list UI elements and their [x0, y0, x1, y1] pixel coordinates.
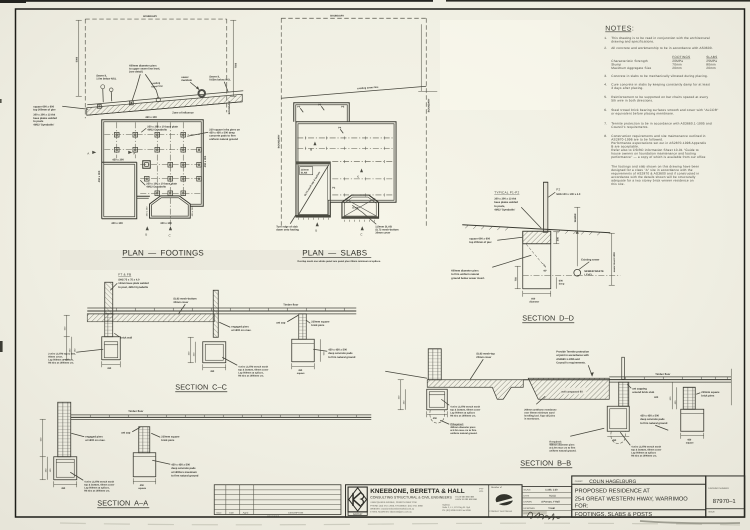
svg-text:450: 450: [433, 417, 438, 420]
svg-text:in membrane.: in membrane.: [524, 417, 540, 420]
title SECTION D-D: [522, 313, 574, 323]
svg-text:R6 ties at 1050mm crs.: R6 ties at 1050mm crs.: [450, 414, 476, 417]
boundary left (slabs plan): [277, 18, 281, 228]
note 250x100 base plate lower: [140, 180, 177, 188]
section marker B in slab: [310, 141, 316, 151]
svg-text:to post, 4M12 Dynabolts: to post, 4M12 Dynabolts: [118, 286, 148, 289]
svg-text:deep concrete pads: deep concrete pads: [328, 352, 353, 355]
dim sewer invert right: [609, 233, 616, 285]
svg-text:450: 450: [612, 439, 617, 442]
svg-text:brick piers: brick piers: [161, 439, 175, 442]
svg-text:brick piers: brick piers: [701, 395, 715, 398]
stub footing B-B: [607, 406, 629, 431]
svg-text:top 200mm of pier: top 200mm of pier: [469, 241, 491, 244]
svg-text:uniform natural ground: uniform natural ground: [209, 138, 238, 141]
svg-text:PLAN — FOOTINGS: PLAN — FOOTINGS: [122, 248, 204, 257]
slab outline top extension: [294, 103, 350, 122]
svg-text:square: square: [138, 487, 147, 490]
svg-text:9.2.11: 9.2.11: [549, 495, 556, 498]
svg-text:Maximum Aggregate Size: Maximum Aggregate Size: [611, 66, 651, 70]
svg-text:A.C.N 003 550 469: A.C.N 003 550 469: [455, 495, 474, 498]
svg-text:5000: 5000: [75, 56, 78, 62]
mid footing C-C: [203, 342, 226, 363]
230mm brick piers label B-B: [696, 391, 720, 398]
svg-text:300 x 300 x 12 thk: 300 x 300 x 12 thk: [494, 197, 516, 200]
note 4 wire A-A: [70, 472, 114, 492]
svg-text:R6 ties at 1050mm crs.: R6 ties at 1050mm crs.: [84, 489, 110, 492]
label FT & FB: [110, 272, 149, 290]
svg-text:PHONE: (02) 4721 2556, FACSIMI: PHONE: (02) 4721 2556, FACSIMILE: (02) 4…: [370, 504, 423, 507]
dim 450 left footing B-B: [427, 411, 448, 420]
svg-text:20mm: 20mm: [706, 66, 716, 70]
svg-text:at 1800 crs max.: at 1800 crs max.: [85, 439, 105, 442]
svg-text:DESCRIPTION: DESCRIPTION: [288, 511, 303, 514]
svg-text:brick piers: brick piers: [311, 324, 325, 327]
pad grid centrelines vertical: [117, 122, 184, 230]
pier pads row5: [155, 191, 186, 196]
svg-text:uniform natural ground.: uniform natural ground.: [549, 449, 576, 452]
title SECTION B-B: [520, 458, 572, 468]
ant cap label C-C: [276, 315, 298, 324]
note 450x450 pads C-C: [313, 348, 356, 359]
svg-text:FOR:: FOR:: [575, 504, 589, 510]
svg-text:Ph: (02) 9299 1100 Fax 9299: Ph: (02) 9299 1100 Fax 9299: [442, 509, 471, 512]
sewer waste circle: [523, 269, 621, 276]
boundary line left (footings plan): [84, 19, 86, 118]
drawing number box: [706, 487, 745, 514]
title SECTION C-C: [175, 382, 227, 392]
svg-text:4.: 4.: [604, 82, 607, 86]
existing sewer line label: [151, 82, 163, 89]
svg-text:4 MACQUARIE AVENUE, PENRITH NS: 4 MACQUARIE AVENUE, PENRITH NSW 2750: [370, 501, 417, 504]
dim 600 deep: [556, 277, 565, 289]
far right pad B-B: [681, 409, 704, 431]
svg-text:4M12 Dynabolts: 4M12 Dynabolts: [146, 185, 166, 188]
svg-text:BOUNDARY: BOUNDARY: [427, 98, 430, 112]
svg-text:600: 600: [654, 396, 659, 399]
svg-text:4M12 'Dynabolts': 4M12 'Dynabolts': [33, 123, 54, 126]
P4 label mid: [338, 126, 343, 133]
ant capping label B-B: [627, 384, 659, 399]
revision table box: [214, 485, 341, 515]
if required right B-B: [549, 428, 604, 452]
post P2: [543, 182, 547, 232]
left footing A-A: [54, 457, 77, 480]
svg-text:450 x 300: 450 x 300: [191, 206, 194, 216]
svg-text:SL82 mesh-bottom: SL82 mesh-bottom: [173, 297, 197, 300]
sewer manhole dark circle: [198, 90, 205, 97]
label sewer IL left: [96, 74, 117, 80]
svg-text:SEWER WASTE: SEWER WASTE: [584, 270, 604, 273]
svg-text:DRAWING NUMBER: DRAWING NUMBER: [708, 487, 729, 490]
label square 600x600 piers left margin: [33, 105, 88, 126]
svg-text:450: 450: [61, 487, 66, 490]
step in slab room (thick edge): [296, 162, 330, 220]
label 110mm slab bay: [352, 205, 399, 234]
svg-text:8.: 8.: [604, 134, 607, 138]
section marker C in slab: [357, 168, 363, 178]
svg-text:CLIENT:: CLIENT:: [575, 480, 584, 483]
left footing C-C: [102, 337, 121, 360]
section marker A left: [87, 151, 96, 156]
svg-text:Sydney:: Sydney:: [442, 503, 450, 506]
svg-text:B: B: [315, 228, 317, 232]
svg-text:SECTION C–C: SECTION C–C: [175, 382, 227, 391]
svg-text:brick wall: brick wall: [120, 336, 132, 339]
left slab B-B: [427, 380, 523, 400]
pier bulb dashed right B-B: [611, 431, 626, 444]
dimension 7500 right: [230, 20, 237, 96]
svg-text:CONSULTING STRUCTURAL & CIVIL: CONSULTING STRUCTURAL & CIVIL ENGINEERS: [370, 496, 452, 500]
bay side dims rotated: [145, 206, 194, 216]
svg-text:REVISIONS: REVISIONS: [267, 515, 279, 518]
svg-text:Provide Termite protection: Provide Termite protection: [556, 350, 589, 353]
note 4 wire L12TM mid: [222, 357, 268, 377]
sewer zone hatched band: [87, 94, 243, 115]
svg-text:Zone of influence: Zone of influence: [172, 111, 194, 114]
scan left edge marks: [0, 99, 2, 103]
title PLAN - SLABS: [297, 248, 381, 263]
dim 450 mid footing: [203, 364, 226, 373]
svg-text:ant cap: ant cap: [121, 431, 130, 434]
ground slope left B-B: [385, 371, 427, 378]
svg-text:5.: 5.: [604, 95, 607, 99]
section marker C bottom (slabs): [360, 226, 364, 236]
KBH logo: [348, 487, 367, 516]
title PLAN - FOOTINGS: [122, 248, 204, 257]
engaged piers label A-A: [71, 433, 105, 442]
svg-text:to firm uniform natural: to firm uniform natural: [451, 273, 479, 276]
dim 350 left footing: [102, 361, 121, 370]
mid brick pier A-A: [139, 427, 150, 453]
far right brick pier B-B: [683, 387, 695, 409]
mid pad A-A: [133, 453, 156, 477]
svg-text:FT & FB: FT & FB: [118, 272, 131, 276]
note 4wire right B-B: [620, 432, 661, 457]
svg-text:450 x 450 x 500: 450 x 450 x 500: [171, 463, 190, 466]
svg-text:Timber floor: Timber floor: [128, 410, 143, 413]
svg-text:SL82 mesh-top: SL82 mesh-top: [476, 352, 495, 355]
dim line right of slabs: [418, 24, 437, 91]
svg-text:20mm cover: 20mm cover: [476, 356, 491, 359]
svg-text:(see detail): (see detail): [129, 71, 143, 74]
svg-text:B: B: [145, 232, 147, 236]
svg-text:750: 750: [514, 277, 517, 282]
svg-text:square 600 x 600: square 600 x 600: [469, 237, 490, 240]
note 4wire left B-B: [441, 399, 480, 417]
label P2 SHS: [548, 187, 581, 197]
svg-text:E-MAIL ADDRESS: kbateam@pnc.co: E-MAIL ADDRESS: kbateam@pnc.com.au: [370, 511, 412, 514]
note if required left B-B: [440, 420, 477, 435]
svg-text:45°: 45°: [543, 269, 547, 272]
pier D-D: [523, 231, 551, 289]
svg-text:square: square: [686, 441, 695, 444]
svg-text:Council's requirements.: Council's requirements.: [611, 125, 648, 129]
svg-text:this site.: this site.: [611, 182, 625, 186]
svg-text:engaged piers: engaged piers: [231, 325, 249, 328]
boundary line right (footings plan): [227, 19, 231, 114]
svg-text:4M12 Dynabolts: 4M12 Dynabolts: [147, 128, 167, 131]
slab hatch C-C: [87, 314, 214, 322]
section marker C bottom: [168, 226, 172, 237]
open circle on sewer line: [156, 98, 160, 102]
dims left C-C: [63, 315, 76, 360]
svg-text:450 x 300: 450 x 300: [98, 170, 101, 182]
svg-text:A: A: [133, 151, 135, 155]
svg-text:uniform natural ground.: uniform natural ground.: [450, 432, 477, 435]
scale/date/drawn rows: [522, 488, 572, 520]
ACEA member logo: [488, 485, 490, 518]
svg-text:1:100, 1:20: 1:100, 1:20: [545, 489, 558, 492]
section marker A mid: [128, 151, 135, 156]
note 250x300 base plate upper: [141, 125, 178, 132]
svg-text:FOOTINGS, SLABS & POSTS: FOOTINGS, SLABS & POSTS: [575, 512, 653, 518]
svg-text:Existing sewer: Existing sewer: [581, 258, 599, 261]
svg-text:450 x 450 x 500: 450 x 450 x 500: [328, 348, 347, 351]
svg-text:base plates welded: base plates welded: [494, 201, 518, 204]
svg-text:ground below sewer invert.: ground below sewer invert.: [451, 277, 485, 280]
pier pads on sewer line: [97, 101, 133, 108]
svg-text:GROUP: GROUP: [353, 513, 363, 516]
svg-text:450 x 450 x 500: 450 x 450 x 500: [640, 414, 659, 417]
left brick wall A-A: [58, 402, 71, 457]
svg-text:6.: 6.: [604, 108, 607, 112]
svg-text:230mm square: 230mm square: [311, 320, 330, 323]
label sewer IL right: [209, 75, 231, 92]
riser circle symbols: [101, 85, 113, 103]
label sewer manhole: [181, 76, 199, 90]
note 230 square infra piers: [187, 128, 240, 141]
svg-text:square: square: [297, 372, 306, 375]
svg-text:top 200mm of pier: top 200mm of pier: [33, 108, 55, 111]
svg-text:SECTION A–A: SECTION A–A: [97, 498, 148, 507]
mesh label C-C: [173, 297, 197, 314]
svg-text:2.: 2.: [604, 46, 607, 50]
svg-text:PROPOSED RESIDENCE AT: PROPOSED RESIDENCE AT: [575, 488, 651, 494]
svg-text:Overlap mesh one whole panel o: Overlap mesh one whole panel one panel p…: [297, 260, 381, 263]
svg-text:BOUNDARY: BOUNDARY: [143, 15, 157, 18]
svg-text:at joint in accordance with: at joint in accordance with: [556, 354, 589, 357]
svg-text:SECTION D–D: SECTION D–D: [522, 313, 574, 322]
svg-text:4M12 'Dynabolts': 4M12 'Dynabolts': [494, 209, 515, 212]
svg-text:App'd: App'd: [243, 511, 249, 514]
svg-text:around brick stub: around brick stub: [632, 391, 654, 394]
svg-text:Date: Date: [229, 511, 234, 514]
right pad C-C: [292, 339, 315, 362]
svg-text:SLAB: SLAB: [301, 172, 308, 175]
230mm square brick piers label C-C: [306, 320, 330, 327]
svg-text:AS3660.1-1995 and: AS3660.1-1995 and: [556, 358, 580, 361]
slab bay window: [342, 195, 379, 222]
svg-text:SECTION B–B: SECTION B–B: [520, 458, 571, 467]
svg-text:ant capping: ant capping: [632, 387, 647, 390]
dimension 5000 left: [75, 20, 82, 96]
dim 450 square mid pad A-A: [133, 478, 156, 490]
svg-text:200: 200: [556, 237, 559, 242]
footings building outline outer: [102, 120, 204, 219]
post C-C: [105, 282, 113, 314]
boundary top (slabs plan): [281, 14, 426, 18]
right floor line B-B: [609, 369, 731, 406]
svg-text:Y Hall: Y Hall: [548, 507, 555, 510]
membrane note B-B: [524, 396, 557, 420]
svg-text:87970–1: 87970–1: [713, 498, 736, 505]
svg-text:450: 450: [210, 370, 215, 373]
right brick pier C-C: [299, 314, 307, 340]
svg-text:deep: deep: [559, 283, 565, 286]
P3 label lower: [332, 186, 336, 189]
svg-text:7.: 7.: [604, 121, 607, 125]
svg-text:0.65m below NGL: 0.65m below NGL: [209, 78, 231, 81]
dim 450 stub footing: [607, 436, 629, 442]
svg-text:well compacted fill: well compacted fill: [561, 390, 583, 393]
svg-text:KNEEBONE, BERETTA & HALL: KNEEBONE, BERETTA & HALL: [370, 488, 465, 495]
note 450x450 pads B-B: [640, 414, 668, 430]
svg-text:450 x 300: 450 x 300: [145, 116, 157, 119]
company name: [370, 487, 484, 513]
pier bulb dashed left B-B: [430, 410, 445, 424]
svg-text:Timber floor: Timber floor: [283, 303, 298, 306]
svg-text:to firm natural ground: to firm natural ground: [171, 475, 199, 478]
svg-text:400 x 300: 400 x 300: [111, 222, 123, 225]
svg-text:to firm natural ground: to firm natural ground: [328, 356, 356, 359]
left brick column B-B: [428, 349, 441, 380]
svg-text:B: B: [310, 148, 312, 151]
svg-text:BOUNDARY: BOUNDARY: [277, 134, 280, 148]
svg-text:at 1800crs maximum: at 1800crs maximum: [171, 471, 197, 474]
svg-text:20mm: 20mm: [672, 66, 682, 70]
label turn edge of slab: [276, 214, 299, 231]
svg-text:PTY: PTY: [479, 487, 484, 490]
title SECTION A-A: [97, 498, 149, 508]
svg-text:12mm base plate welded: 12mm base plate welded: [118, 282, 149, 285]
svg-text:300 x 300: 300 x 300: [160, 222, 172, 225]
svg-text:ant cap: ant cap: [276, 321, 285, 324]
dim 450 square right pad: [292, 363, 315, 375]
client row: [572, 479, 706, 485]
post B-B: [622, 357, 625, 379]
svg-text:to posts,: to posts,: [494, 205, 505, 208]
svg-text:450 x 300: 450 x 300: [145, 206, 148, 216]
svg-text:to firm natural ground: to firm natural ground: [640, 422, 668, 425]
svg-text:230mm square: 230mm square: [701, 391, 720, 394]
svg-text:1.: 1.: [604, 36, 607, 40]
svg-text:manhole: manhole: [181, 79, 192, 82]
svg-text:SHS 75 x 75 x 4.0: SHS 75 x 75 x 4.0: [118, 278, 140, 281]
svg-text:DATE: DATE: [524, 494, 530, 497]
svg-text:Concrete in slabs to be mechan: Concrete in slabs to be mechanically vib…: [611, 74, 708, 78]
svg-text:254 GREAT WESTERN HWAY, WARRIM: 254 GREAT WESTERN HWAY, WARRIMOO: [575, 496, 688, 502]
dim 450 left footing A-A: [54, 481, 77, 490]
ant cap label A-A: [121, 427, 140, 434]
svg-text:Member of: Member of: [491, 486, 502, 489]
svg-text:Issue: Issue: [216, 511, 222, 514]
svg-text:5th wire in both directions.: 5th wire in both directions.: [611, 98, 653, 102]
svg-text:SEWER: SEWER: [574, 213, 577, 222]
svg-text:All concrete and workmanship t: All concrete and workmanship to be in ac…: [611, 46, 713, 50]
brick wall below post: [105, 314, 133, 340]
pier pads row1: [114, 132, 185, 137]
svg-text:C: C: [357, 175, 359, 178]
P5 labels top extension: [297, 103, 345, 112]
left footing B-B: [427, 389, 448, 410]
floor line C-C: [87, 308, 356, 314]
existing sewer line through manholes: [87, 91, 243, 105]
svg-text:30mm cover: 30mm cover: [375, 232, 390, 235]
svg-text:COLIN HAGELBURG: COLIN HAGELBURG: [589, 479, 636, 485]
mesh tick marks: [305, 136, 384, 196]
svg-text:R6 ties at 1050mm crs.: R6 ties at 1050mm crs.: [48, 361, 74, 364]
dim 200 pier top: [553, 232, 559, 244]
svg-text:or equivalent before placing m: or equivalent before placing membrane.: [611, 111, 674, 115]
svg-text:230mm square: 230mm square: [161, 435, 180, 438]
svg-text:at 1800 crs max.: at 1800 crs max.: [231, 329, 251, 332]
scan bottom smudge: [60, 523, 740, 525]
dim 750 left of pier: [514, 266, 521, 289]
footings bay window octagon: [150, 196, 191, 218]
svg-text:WEBSITE: www.kneeboneberettaha: WEBSITE: www.kneeboneberettahall.com.au: [370, 507, 415, 510]
note 450 pads A-A: [152, 460, 199, 477]
svg-text:R6 ties at 1050mm crs.: R6 ties at 1050mm crs.: [238, 374, 264, 377]
svg-text:BOUNDARY: BOUNDARY: [330, 14, 344, 17]
svg-text:deep concrete pads: deep concrete pads: [171, 467, 196, 470]
label square 600x600 (D-D): [469, 237, 522, 244]
label existing sewer (D-D): [579, 258, 599, 269]
slab outline main: [296, 122, 396, 217]
label 600mm diameter piers: [129, 64, 160, 100]
existing sewer line (slabs): [281, 86, 426, 99]
room diagonal with mesh label: [299, 165, 329, 215]
svg-text:LEVEL: LEVEL: [584, 274, 593, 277]
pier pads row2: [114, 147, 201, 152]
110mm slab tag box: [300, 167, 313, 175]
section marker B bottom-left: [145, 226, 149, 236]
termite protection label B-B: [556, 350, 594, 376]
boundary right (slabs plan): [426, 18, 430, 228]
svg-text:diameter: diameter: [529, 301, 539, 304]
note 2 wire L12TM: [48, 349, 103, 364]
svg-text:350: 350: [107, 367, 112, 370]
dims mid C-C: [187, 337, 195, 363]
svg-text:NOTES:: NOTES:: [605, 25, 634, 32]
svg-text:3.: 3.: [604, 74, 607, 78]
svg-text:3 days after placing.: 3 days after placing.: [611, 86, 643, 90]
svg-text:7500: 7500: [234, 62, 237, 68]
svg-text:drawing and specifications.: drawing and specifications.: [611, 39, 654, 43]
dims right B-B: [669, 382, 677, 409]
footings building outline inner: [104, 122, 202, 217]
svg-text:LTD: LTD: [479, 490, 483, 493]
project rows: [572, 488, 706, 518]
title block outer boxes: [346, 476, 745, 517]
svg-text:engaged piers: engaged piers: [85, 435, 103, 438]
label 600mm dia piers (D-D): [451, 255, 531, 280]
svg-text:1.0m below NGL: 1.0m below NGL: [96, 77, 117, 80]
svg-text:sewer invert 1200: sewer invert 1200: [613, 252, 616, 273]
dims far left A-A: [39, 419, 51, 480]
svg-text:ISSUE: ISSUE: [708, 510, 715, 513]
svg-text:SCALE: SCALE: [524, 488, 532, 491]
edge beam wall mid C-C: [213, 290, 218, 337]
svg-text:R6 ties at 1000mm crs.: R6 ties at 1000mm crs.: [631, 454, 657, 457]
svg-text:P2: P2: [556, 187, 560, 191]
230mm square brick piers label A-A: [151, 433, 180, 442]
svg-text:450 x 304: 450 x 304: [204, 155, 207, 167]
dims right C-C: [320, 339, 325, 362]
svg-text:DRAWN: DRAWN: [524, 500, 533, 503]
floor line A-A: [71, 415, 372, 420]
svg-text:A.B.N 31 003 550 469: A.B.N 31 003 550 469: [455, 498, 477, 501]
